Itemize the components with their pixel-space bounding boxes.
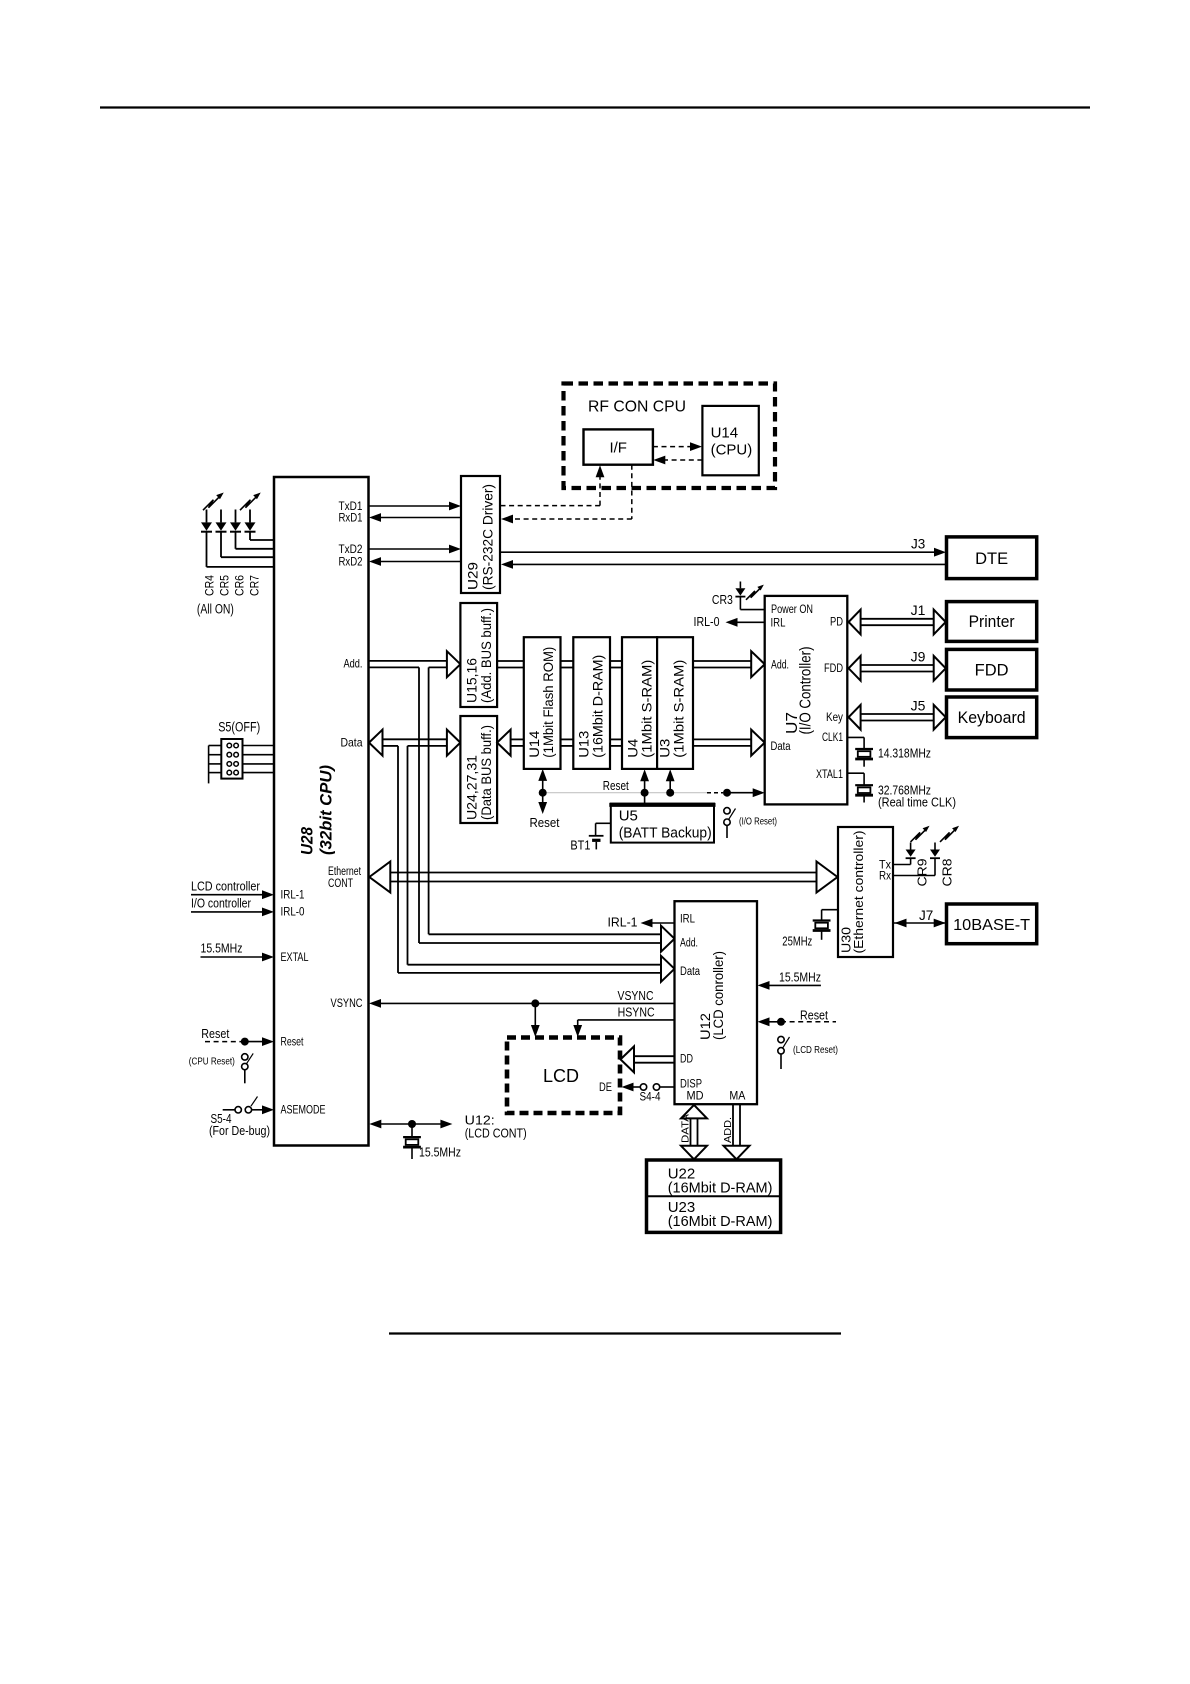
svg-text:Reset: Reset xyxy=(603,778,629,793)
svg-text:DATA: DATA xyxy=(679,1114,691,1143)
switch S5 label xyxy=(218,720,260,735)
svg-text:15.5MHz: 15.5MHz xyxy=(201,941,243,956)
wire RxD1 U29 to U28 xyxy=(369,513,461,522)
svg-text:Reset: Reset xyxy=(281,1035,304,1049)
svg-text:J7: J7 xyxy=(919,908,933,923)
reset arrow at U4 xyxy=(640,769,649,803)
svg-text:(All ON): (All ON) xyxy=(197,602,234,617)
switch S5 DIP body xyxy=(221,739,242,779)
address bus through memory bank to U7 xyxy=(497,651,765,677)
dashed wire U29 TxD1 to I/F xyxy=(501,465,605,505)
address bus vertical branch to U12 xyxy=(419,667,675,951)
LED emission arrows left pair xyxy=(203,492,224,510)
svg-text:(Data BUS buff.): (Data BUS buff.) xyxy=(478,725,494,820)
battery backup U5 xyxy=(609,804,715,843)
wire DISP to LCD DE with switch S4-4 xyxy=(599,1082,675,1104)
svg-text:FDD: FDD xyxy=(975,662,1009,680)
svg-text:(RS-232C Driver): (RS-232C Driver) xyxy=(480,484,496,590)
svg-text:IRL: IRL xyxy=(680,914,695,926)
ethernet bus U28 to U30 xyxy=(369,862,837,893)
svg-text:U5: U5 xyxy=(619,808,638,825)
bus J9 U7 to FDD xyxy=(849,649,946,681)
svg-text:Data: Data xyxy=(771,741,791,753)
wire J7 U30 to 10BASE-T xyxy=(894,908,946,927)
svg-text:XTAL1: XTAL1 xyxy=(816,769,843,781)
svg-text:Key: Key xyxy=(826,712,843,724)
svg-text:Reset: Reset xyxy=(800,1008,828,1023)
svg-text:I/O controller: I/O controller xyxy=(191,896,252,911)
svg-text:Data: Data xyxy=(680,966,700,978)
vram U22 U23 (16Mbit D-RAM) xyxy=(647,1160,781,1232)
svg-text:DE: DE xyxy=(599,1082,612,1094)
bus J5 U7 to Keyboard xyxy=(849,698,946,730)
svg-text:U4: U4 xyxy=(626,738,641,758)
svg-text:CR6: CR6 xyxy=(233,575,247,596)
svg-text:MA: MA xyxy=(729,1089,745,1103)
wire TxD1 U28 to U29 xyxy=(369,502,462,511)
wire HSYNC U12 to LCD xyxy=(573,1006,674,1038)
connector Printer xyxy=(947,602,1037,642)
svg-text:Data: Data xyxy=(341,736,363,750)
svg-text:HSYNC: HSYNC xyxy=(618,1006,655,1020)
wire Reset to U12 with LCD Reset switch xyxy=(758,1008,839,1070)
svg-text:(I/O Reset): (I/O Reset) xyxy=(739,817,777,828)
dashed wire U14 to I/F xyxy=(653,456,702,465)
svg-text:CR4: CR4 xyxy=(203,575,217,596)
svg-text:DD: DD xyxy=(680,1054,693,1066)
LED CR4 xyxy=(201,510,274,597)
svg-text:(I/O Controller): (I/O Controller) xyxy=(798,647,815,735)
connector DTE xyxy=(947,537,1037,579)
wire IRL-0 from U7 xyxy=(694,615,765,629)
label (All ON) xyxy=(197,602,234,617)
crystal 32.768MHz at XTAL1 xyxy=(847,773,956,809)
svg-text:VSYNC: VSYNC xyxy=(331,996,363,1010)
flash U14 (1Mbit Flash ROM) xyxy=(524,637,561,769)
LED CR5 xyxy=(216,510,275,597)
svg-text:(Add. BUS buff.): (Add. BUS buff.) xyxy=(478,608,494,703)
interface block I/F xyxy=(584,429,653,464)
svg-text:CLK1: CLK1 xyxy=(822,732,843,744)
svg-text:Reset: Reset xyxy=(201,1026,229,1041)
svg-text:(1Mbit S-RAM): (1Mbit S-RAM) xyxy=(672,660,687,758)
svg-text:BT1: BT1 xyxy=(570,839,590,853)
U28 pin labels xyxy=(281,499,363,1117)
svg-text:IRL-0: IRL-0 xyxy=(281,905,305,919)
svg-text:(CPU Reset): (CPU Reset) xyxy=(189,1056,235,1068)
svg-text:CR9: CR9 xyxy=(915,859,930,887)
svg-text:(LCD Reset): (LCD Reset) xyxy=(793,1045,838,1056)
svg-text:S4-4: S4-4 xyxy=(640,1090,661,1104)
wire 15.5MHz to U12 xyxy=(758,971,822,990)
svg-text:U3: U3 xyxy=(658,739,673,758)
switch S5 row 4 wire and contacts xyxy=(209,770,274,775)
wire 15.5MHz to EXTAL xyxy=(201,941,275,962)
RF CON CPU dashed enclosure xyxy=(564,384,776,489)
svg-text:(BATT Backup): (BATT Backup) xyxy=(619,826,712,842)
svg-text:(16Mbit D-RAM): (16Mbit D-RAM) xyxy=(590,655,605,758)
wire Reset to U28 with CPU Reset switch xyxy=(189,1026,274,1083)
svg-text:CONT: CONT xyxy=(328,878,353,890)
driver U29 (RS-232C Driver) xyxy=(461,476,500,593)
wire J3 U29 to DTE xyxy=(500,537,946,557)
controller U7 (I/O Controller) xyxy=(765,596,848,805)
svg-text:15.5MHz: 15.5MHz xyxy=(419,1146,461,1160)
op block U14 (CPU) xyxy=(702,406,758,475)
svg-text:(LCD CONT): (LCD CONT) xyxy=(465,1127,527,1141)
svg-text:J9: J9 xyxy=(911,649,926,665)
svg-text:U12:: U12: xyxy=(465,1114,495,1128)
svg-text:FDD: FDD xyxy=(824,663,843,675)
switch S5 row 3 wire and contacts xyxy=(209,762,274,767)
address bus U28 to U15,16 xyxy=(369,651,461,677)
switch S5 row 1 wire and contacts xyxy=(209,743,274,748)
dashed wire I/F to U14 xyxy=(653,442,702,451)
dram U13 (16Mbit D-RAM) xyxy=(573,637,610,769)
data bus memory bank to U7 xyxy=(497,730,765,756)
svg-text:(CPU): (CPU) xyxy=(711,442,753,459)
svg-text:(Real time CLK): (Real time CLK) xyxy=(878,796,956,810)
svg-text:Add.: Add. xyxy=(344,657,363,671)
svg-text:(1Mbit Flash ROM): (1Mbit Flash ROM) xyxy=(541,647,556,758)
svg-text:J3: J3 xyxy=(911,537,925,552)
wire I/O controller to IRL-0 xyxy=(191,896,274,917)
svg-text:EXTAL: EXTAL xyxy=(281,950,309,964)
svg-text:ASEMODE: ASEMODE xyxy=(281,1103,326,1117)
svg-text:I/F: I/F xyxy=(609,440,627,457)
svg-text:CR5: CR5 xyxy=(218,575,232,596)
svg-text:Rx: Rx xyxy=(879,871,891,883)
wire U28 to U12 LCD CONT xyxy=(369,1114,526,1141)
svg-text:VSYNC: VSYNC xyxy=(618,989,654,1003)
svg-text:Power ON: Power ON xyxy=(771,604,813,616)
data bus U28 to U24,27,31 xyxy=(369,730,460,756)
switch (I/O Reset) xyxy=(724,808,777,838)
svg-text:Reset: Reset xyxy=(530,815,560,830)
svg-text:(For De-bug): (For De-bug) xyxy=(209,1124,270,1138)
svg-text:RF CON CPU: RF CON CPU xyxy=(588,399,686,416)
bus ADD U12 to U22 xyxy=(722,1104,750,1159)
svg-text:LCD controller: LCD controller xyxy=(191,879,261,894)
connector 10BASE-T xyxy=(947,904,1037,944)
svg-text:IRL: IRL xyxy=(771,617,786,629)
svg-text:ADD.: ADD. xyxy=(722,1117,734,1143)
crystal 15.5MHz at U28 xyxy=(403,1124,461,1160)
controller U30 (Ethernet controller) xyxy=(838,827,893,957)
connector Keyboard xyxy=(947,697,1037,738)
svg-text:U29: U29 xyxy=(465,562,481,590)
svg-text:J1: J1 xyxy=(911,602,926,618)
svg-text:J5: J5 xyxy=(911,698,926,714)
svg-text:MD: MD xyxy=(687,1089,704,1103)
bottom rule line xyxy=(389,1332,841,1334)
reset arrow at U3 xyxy=(666,769,675,796)
switch S5 row 2 wire and contacts xyxy=(209,752,274,757)
svg-text:(32bit CPU): (32bit CPU) xyxy=(317,765,336,855)
svg-text:PD: PD xyxy=(830,617,843,629)
buffer U15,16 (Add. BUS buff.) xyxy=(460,603,497,707)
wire IRL-1 from U12 xyxy=(608,916,675,930)
svg-text:(LCD conroller): (LCD conroller) xyxy=(710,951,726,1040)
svg-text:CR3: CR3 xyxy=(712,593,733,607)
LED CR3 xyxy=(712,582,765,610)
wire RxD2 U29 to U28 xyxy=(369,557,461,566)
svg-text:U14: U14 xyxy=(711,425,739,442)
cpu U28 (32bit CPU) xyxy=(274,477,369,1146)
svg-text:RxD1: RxD1 xyxy=(339,511,363,525)
svg-text:(1Mbit S-RAM): (1Mbit S-RAM) xyxy=(640,660,655,758)
svg-text:(Ethernet controller): (Ethernet controller) xyxy=(852,831,866,954)
svg-text:CR8: CR8 xyxy=(940,859,955,887)
svg-text:Add.: Add. xyxy=(680,938,698,950)
svg-text:Ethernet: Ethernet xyxy=(328,866,362,878)
bus DD U12 to LCD xyxy=(621,1046,675,1072)
svg-text:IRL-0: IRL-0 xyxy=(694,615,720,629)
svg-text:IRL-1: IRL-1 xyxy=(608,916,638,930)
reset arrow at U14 xyxy=(530,769,560,830)
switch S5-4 to ASEMODE xyxy=(209,1097,274,1139)
svg-text:S5(OFF): S5(OFF) xyxy=(218,720,260,735)
sram U3 (1Mbit S-RAM) xyxy=(657,637,693,769)
sram U4 (1Mbit S-RAM) xyxy=(622,637,657,769)
reset net wire xyxy=(543,778,765,797)
wire LCD controller to IRL-1 xyxy=(191,879,274,900)
LED CR8 xyxy=(893,843,955,887)
svg-text:CR7: CR7 xyxy=(248,575,262,596)
LED emission arrows right pair xyxy=(240,492,261,510)
svg-text:15.5MHz: 15.5MHz xyxy=(779,971,821,985)
svg-text:14.318MHz: 14.318MHz xyxy=(878,747,931,761)
svg-text:(16Mbit D-RAM): (16Mbit D-RAM) xyxy=(668,1214,773,1230)
battery BT1 xyxy=(570,823,610,852)
crystal 25MHz at U30 xyxy=(782,910,838,949)
svg-text:10BASE-T: 10BASE-T xyxy=(953,917,1030,934)
svg-text:(16Mbit D-RAM): (16Mbit D-RAM) xyxy=(668,1181,773,1197)
svg-text:Keyboard: Keyboard xyxy=(958,709,1026,727)
crystal 14.318MHz at CLK1 xyxy=(847,737,931,766)
bus J1 U7 to Printer xyxy=(849,602,946,634)
svg-text:25MHz: 25MHz xyxy=(782,935,812,949)
dashed wire I/F to U29 RxD1 xyxy=(501,465,632,524)
svg-text:LCD: LCD xyxy=(543,1066,579,1086)
controller U12 (LCD conroller) xyxy=(675,901,758,1104)
svg-text:U28: U28 xyxy=(298,827,317,855)
LED emission arrows CR9 xyxy=(911,826,930,842)
buffer U24,27,31 (Data BUS buff.) xyxy=(460,716,497,823)
svg-text:Add.: Add. xyxy=(771,659,789,671)
svg-text:DTE: DTE xyxy=(975,550,1008,568)
top rule line xyxy=(100,106,1090,108)
svg-text:Printer: Printer xyxy=(969,613,1015,631)
data bus vertical branch to U12 xyxy=(398,746,675,982)
svg-text:RxD2: RxD2 xyxy=(339,555,363,569)
LED CR7 xyxy=(245,510,275,597)
bus DATA U12 to U22 xyxy=(679,1105,707,1159)
LED CR6 xyxy=(230,510,274,597)
svg-text:IRL-1: IRL-1 xyxy=(281,888,305,902)
connector FDD xyxy=(947,649,1037,690)
wire DTE to U29 xyxy=(501,560,947,569)
display LCD dashed box xyxy=(507,1038,620,1114)
LED emission arrows CR8 xyxy=(940,826,959,842)
LED CR9 xyxy=(893,843,930,887)
switch S5 common wire xyxy=(208,746,210,784)
wire VSYNC U12 to U28 and LCD xyxy=(369,989,675,1037)
wire TxD2 U28 to U29 xyxy=(369,545,462,554)
